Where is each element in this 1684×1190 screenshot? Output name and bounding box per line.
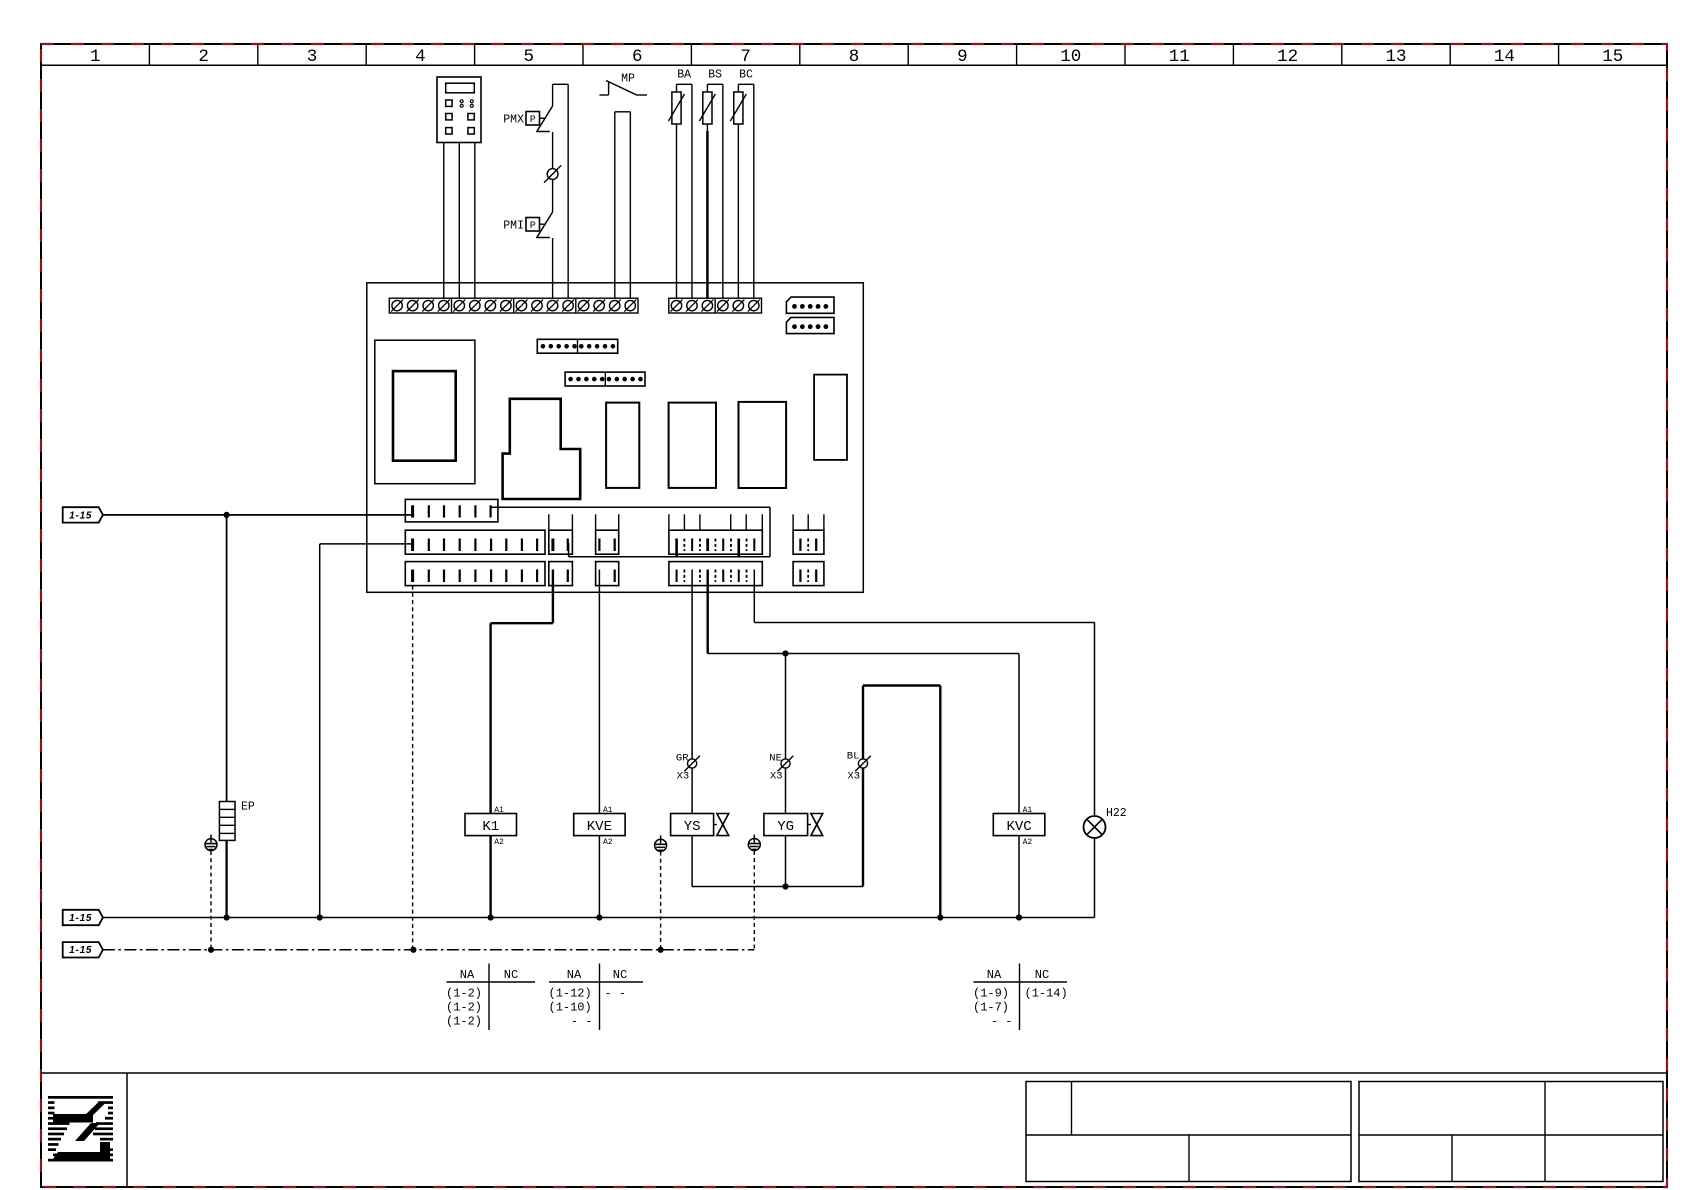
svg-text:NC: NC — [613, 968, 627, 982]
MP wire loop to terminals — [615, 111, 631, 113]
title block group B — [1359, 1082, 1663, 1182]
svg-text:KVE: KVE — [587, 819, 612, 835]
svg-text:YS: YS — [684, 819, 701, 835]
chamfered 5-pin connector J2 — [786, 317, 834, 333]
svg-text:(1-2): (1-2) — [446, 1001, 482, 1015]
wire feed KVC (bold riser) — [707, 570, 709, 654]
svg-text:H22: H22 — [1106, 807, 1127, 820]
earth bus junction dots — [208, 947, 214, 953]
aux connector row3-b — [596, 562, 619, 586]
dashed earth wire EP — [210, 851, 212, 950]
transformer core inner rectangle — [393, 371, 456, 461]
earth bus dash-dot wire — [103, 949, 754, 951]
board connector row1 (6-pin) — [405, 499, 498, 522]
svg-text:EP: EP — [241, 801, 255, 814]
dashed earth wire YS — [660, 852, 662, 950]
svg-text:BS: BS — [708, 69, 722, 82]
svg-text:PMI: PMI — [503, 220, 524, 233]
board connector row2 (10-pin) — [405, 530, 545, 554]
aux connector row3-a — [549, 562, 573, 586]
capacitor block right — [814, 375, 847, 460]
svg-text:A2: A2 — [1023, 838, 1033, 847]
indicator lamp H22 — [1084, 807, 1127, 838]
relay K-B — [669, 403, 716, 488]
right aux connector row3 — [793, 562, 824, 586]
svg-text:(1-12): (1-12) — [549, 987, 592, 1001]
wide output connector row2 — [669, 514, 762, 557]
10-pin header H1 — [537, 339, 617, 353]
svg-text:(1-7): (1-7) — [973, 1001, 1009, 1015]
wide output connector row3 — [669, 562, 762, 586]
svg-text:A2: A2 — [494, 838, 504, 847]
svg-text:BL: BL — [847, 751, 860, 763]
ruler band bottom line — [41, 64, 1667, 66]
aux connector row2-a — [549, 514, 573, 554]
title block group A — [1026, 1082, 1351, 1182]
svg-text:X3: X3 — [677, 771, 690, 783]
company logo (striped Z) — [48, 1096, 113, 1162]
contactor coil KVC — [993, 806, 1045, 847]
aux connector row2-b — [596, 514, 619, 554]
reference tag 1-15 (top feed) — [63, 507, 103, 522]
wire PM loop right side — [553, 83, 569, 85]
svg-text:NE: NE — [769, 753, 782, 765]
svg-text:KVC: KVC — [1006, 819, 1031, 835]
wire net YS with GR disconnect — [691, 570, 693, 759]
svg-text:11: 11 — [1169, 47, 1190, 67]
operator keypad / display unit — [437, 77, 481, 143]
svg-text:NA: NA — [567, 968, 582, 982]
wire K1 to neutral bus (bold) — [489, 836, 491, 918]
svg-text:5: 5 — [524, 47, 535, 67]
svg-text:12: 12 — [1277, 47, 1298, 67]
screw terminal strip X1 (16 poles) — [389, 298, 638, 313]
svg-text:- -: - - — [571, 1015, 593, 1029]
keypad wires to terminals — [443, 143, 445, 299]
pressure switch PMX (P) with contact — [503, 106, 552, 132]
svg-text:NC: NC — [1035, 968, 1049, 982]
wire net YG with NE disconnect — [782, 650, 788, 656]
ruler column dividers + numbers 1-15 — [90, 44, 1623, 67]
heatsink polygon — [503, 399, 581, 499]
svg-text:1-15: 1-15 — [69, 510, 92, 521]
temperature sensor BC — [730, 69, 753, 299]
svg-text:NA: NA — [987, 968, 1002, 982]
contact table K1 — [446, 964, 535, 1031]
wire down to EP heater — [226, 515, 228, 802]
svg-text:NA: NA — [460, 968, 475, 982]
svg-text:9: 9 — [957, 47, 968, 67]
svg-text:BC: BC — [739, 69, 753, 82]
svg-text:(1-2): (1-2) — [446, 1015, 482, 1029]
wire riser to row2 connector — [319, 544, 321, 918]
dashed earth wire YG — [753, 851, 755, 950]
right aux connector row2 — [793, 514, 824, 554]
svg-text:(1-14): (1-14) — [1025, 987, 1068, 1001]
junction node EP feed — [224, 512, 230, 518]
title block top line — [41, 1072, 1667, 1074]
wire H22 to neutral bus — [1094, 838, 1096, 918]
svg-text:2: 2 — [198, 47, 209, 67]
board connector row3 (10-pin) — [405, 562, 545, 586]
svg-text:K1: K1 — [482, 819, 499, 835]
svg-text:X3: X3 — [847, 771, 860, 783]
svg-text:A1: A1 — [603, 806, 613, 815]
pressure switch PMI (P) with contact — [503, 212, 552, 238]
svg-text:A1: A1 — [1023, 806, 1033, 815]
svg-text:(1-10): (1-10) — [549, 1001, 592, 1015]
svg-text:1: 1 — [90, 47, 101, 67]
contactor coil K1 — [465, 806, 517, 847]
contactor coil KVE — [574, 806, 625, 847]
svg-text:15: 15 — [1602, 47, 1623, 67]
wire row1 to relay-loop (net L) — [491, 506, 770, 508]
svg-text:- -: - - — [991, 1015, 1013, 1029]
circle-slash symbol on PMX/PMI wire — [552, 132, 554, 168]
earth symbol YS — [655, 835, 667, 851]
svg-text:1-15: 1-15 — [69, 945, 92, 956]
solenoid valve YG — [764, 814, 823, 836]
contact table KVC — [973, 964, 1068, 1031]
svg-text:10: 10 — [1060, 47, 1081, 67]
earth symbol YG — [748, 835, 760, 851]
transformer outer rectangle — [375, 340, 475, 484]
svg-text:A1: A1 — [494, 806, 504, 815]
svg-text:4: 4 — [415, 47, 426, 67]
logo cell divider — [126, 1073, 128, 1187]
svg-text:6: 6 — [632, 47, 643, 67]
wire net BL (bold) with BL disconnect — [862, 768, 864, 886]
svg-text:A2: A2 — [603, 838, 613, 847]
wire KVE to neutral bus — [598, 836, 600, 918]
wire net KVE — [598, 570, 600, 814]
heater element EP — [219, 801, 255, 841]
svg-text:MP: MP — [621, 73, 635, 86]
wire net K1 (bold) — [552, 570, 554, 624]
wire YG bottom to link node — [785, 836, 787, 887]
temperature sensor BA — [669, 69, 692, 299]
wire tag1 to row1 connector — [103, 514, 413, 516]
svg-text:8: 8 — [849, 47, 860, 67]
chamfered 5-pin connector J1 — [786, 297, 834, 313]
wire KVC horizontal — [708, 653, 1019, 655]
svg-text:PMX: PMX — [503, 114, 524, 127]
svg-text:3: 3 — [307, 47, 318, 67]
neutral bus junction dots — [224, 914, 230, 920]
svg-text:(1-9): (1-9) — [973, 987, 1009, 1001]
svg-text:(1-2): (1-2) — [446, 987, 482, 1001]
wire feed H22 lamp — [753, 570, 755, 623]
contact table KVE — [549, 964, 644, 1031]
controller board outline — [367, 283, 864, 593]
wire KVC to neutral bus — [1018, 836, 1020, 918]
solenoid valve YS — [671, 814, 729, 836]
wire YS bottom link — [691, 836, 693, 887]
svg-text:13: 13 — [1385, 47, 1406, 67]
wire EP to neutral bus (bold) — [225, 840, 227, 917]
wire PMX/PMI chain to terminal — [552, 238, 554, 298]
dashed wire row3 to earth bus — [412, 586, 414, 950]
svg-text:NC: NC — [504, 968, 518, 982]
svg-text:P: P — [530, 115, 536, 126]
relay K-A — [606, 403, 639, 488]
wire PMX chain upper — [552, 84, 554, 106]
svg-text:1-15: 1-15 — [69, 913, 92, 924]
reference tag 1-15 (earth bus) — [63, 942, 103, 957]
temperature sensor BS — [699, 69, 722, 299]
svg-text:14: 14 — [1494, 47, 1515, 67]
svg-text:X3: X3 — [770, 771, 783, 783]
protective earth symbol at EP — [205, 835, 217, 851]
svg-text:- -: - - — [605, 987, 627, 1001]
svg-text:7: 7 — [740, 47, 751, 67]
relay K-C — [739, 402, 787, 488]
high pressure switch MP — [599, 73, 647, 96]
neutral bus wire — [103, 917, 1095, 919]
screw terminal strip X2 (6 poles) — [669, 298, 762, 313]
10-pin header H2 — [565, 372, 645, 386]
reference tag 1-15 (neutral bus) — [63, 910, 103, 925]
svg-text:YG: YG — [777, 819, 794, 835]
svg-text:BA: BA — [677, 69, 691, 82]
svg-text:P: P — [530, 221, 536, 232]
